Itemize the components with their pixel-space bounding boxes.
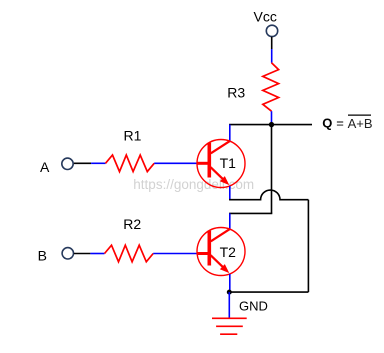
wire right side vertical [307, 200, 309, 292]
junction dot emitter node [227, 290, 232, 295]
svg-text:A: A [40, 159, 50, 175]
svg-text:A+B: A+B [348, 116, 373, 131]
svg-text:https://gongdeli.com: https://gongdeli.com [133, 177, 254, 192]
wire bottom horizontal to emitter node [229, 291, 308, 293]
svg-text:R1: R1 [124, 127, 142, 143]
wire R3 bottom pin [271, 111, 273, 124]
transistor T2 [197, 228, 245, 276]
wire R2 right pin to T2 base [153, 253, 197, 255]
terminal A [62, 158, 73, 169]
wire horizontal to T2 collector [229, 212, 272, 214]
wire Vcc to R3 [271, 37, 273, 49]
wire T1 emitter run with hop [229, 190, 308, 200]
svg-text:R3: R3 [227, 84, 245, 100]
terminal B [62, 248, 73, 259]
wire T1 collector pin [229, 125, 231, 141]
label Q = A+B with overline [322, 115, 372, 131]
wire T2 emitter pin [229, 274, 231, 292]
svg-text:Vcc: Vcc [254, 9, 277, 25]
wire emitter node to ground [228, 292, 230, 318]
svg-text:Q: Q [322, 116, 332, 131]
resistor R2 [105, 245, 154, 262]
wire A to R1 [74, 162, 91, 164]
wire output node down to T2 collector branch [271, 125, 273, 214]
wire R2 left pin [90, 253, 104, 255]
resistor R3 [263, 63, 279, 111]
wire output node horizontal [229, 124, 312, 126]
resistor R1 [106, 155, 155, 172]
junction dot output node [269, 122, 274, 127]
svg-text:GND: GND [239, 298, 268, 313]
wire B to R2 [74, 253, 91, 255]
wire R1 left pin [91, 162, 105, 164]
terminal Vcc [266, 25, 277, 36]
wire T1 emitter pin [229, 186, 231, 200]
wire R3 top pin [271, 49, 273, 63]
transistor T1 [197, 140, 245, 188]
svg-text:R2: R2 [123, 216, 141, 232]
wire R1 right pin to T1 base [154, 162, 197, 164]
svg-text:=: = [336, 116, 344, 131]
wire T2 collector pin [229, 213, 231, 228]
svg-text:B: B [38, 248, 47, 264]
svg-text:T2: T2 [220, 244, 237, 260]
ground symbol [212, 318, 247, 334]
svg-text:T1: T1 [220, 155, 237, 171]
